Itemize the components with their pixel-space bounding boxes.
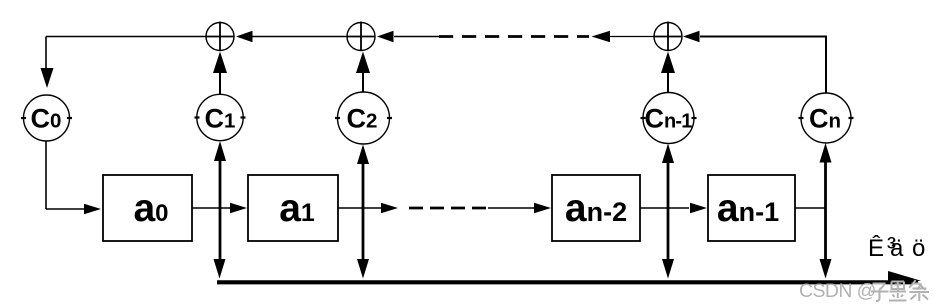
svg-text:CSDN @: CSDN @	[799, 280, 876, 302]
svg-text:Ê³äö: Ê³äö	[868, 232, 925, 262]
